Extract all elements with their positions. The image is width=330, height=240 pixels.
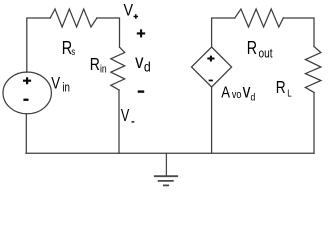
svg-text:Rs: Rs bbox=[62, 37, 76, 58]
svg-text:Vin: Vin bbox=[51, 74, 70, 95]
svg-text:RL: RL bbox=[276, 78, 292, 98]
svg-text:Avovd: Avovd bbox=[221, 80, 255, 104]
bottom wire bbox=[26, 152, 314, 154]
plus in V_in source bbox=[23, 77, 31, 84]
minus in V_in source bbox=[23, 99, 28, 101]
resistor R_s bbox=[50, 9, 97, 27]
V- subscript minus bbox=[132, 121, 135, 122]
dependent source diamond bbox=[192, 47, 232, 87]
resistor R_L bbox=[305, 47, 321, 93]
plus polarity of v_d bbox=[137, 29, 145, 37]
wire diamond bottom bbox=[211, 87, 213, 153]
resistor R_out bbox=[235, 9, 283, 27]
svg-text:V: V bbox=[121, 106, 130, 126]
svg-text:vd: vd bbox=[135, 51, 151, 75]
minus in diamond bbox=[209, 80, 213, 82]
svg-text:Rin: Rin bbox=[90, 54, 107, 75]
wire R_L bottom bbox=[313, 93, 315, 154]
svg-text:V: V bbox=[124, 2, 134, 20]
wire diamond top bbox=[212, 18, 235, 47]
wire top right corner bbox=[283, 18, 314, 47]
resistor R_in bbox=[111, 47, 125, 90]
svg-text:Rout: Rout bbox=[247, 38, 273, 60]
wire below source bbox=[25, 114, 27, 153]
voltage source V_in circle bbox=[3, 72, 51, 114]
wire R_in bottom bbox=[118, 90, 120, 153]
wire top middle bbox=[97, 18, 120, 47]
ground bbox=[155, 153, 177, 185]
wire left vertical bbox=[27, 18, 50, 72]
minus polarity of v_d bbox=[138, 90, 145, 92]
V+ subscript plus bbox=[134, 14, 139, 19]
plus in diamond bbox=[207, 56, 214, 62]
